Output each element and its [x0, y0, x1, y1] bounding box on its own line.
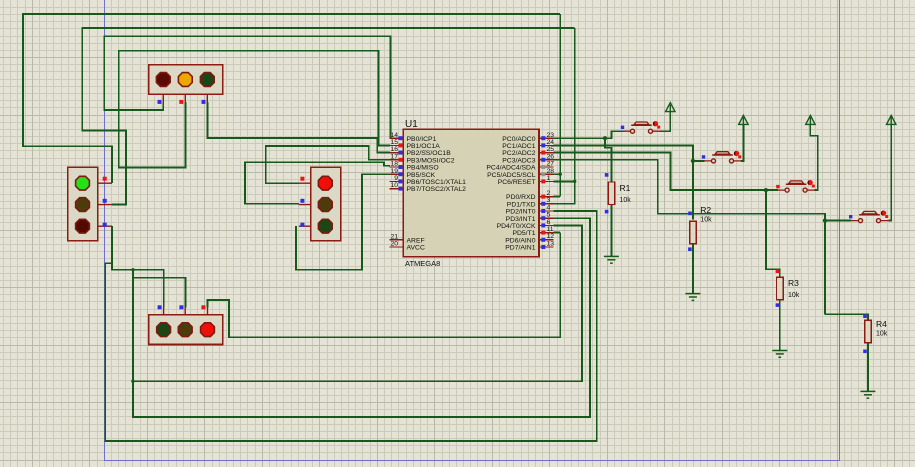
- svg-text:PD7/AIN1: PD7/AIN1: [505, 245, 535, 252]
- svg-text:27: 27: [547, 161, 555, 168]
- svg-text:14: 14: [390, 132, 398, 139]
- svg-text:10: 10: [390, 182, 398, 189]
- svg-text:1: 1: [547, 175, 551, 182]
- svg-text:6: 6: [547, 219, 551, 226]
- svg-text:17: 17: [390, 153, 398, 160]
- svg-text:PD3/INT1: PD3/INT1: [506, 216, 536, 223]
- svg-text:21: 21: [390, 233, 398, 240]
- svg-text:12: 12: [547, 233, 555, 240]
- svg-text:19: 19: [390, 168, 398, 175]
- svg-text:AREF: AREF: [407, 237, 425, 244]
- svg-text:PD4/T0/XCK: PD4/T0/XCK: [497, 223, 536, 230]
- svg-text:PB1/OC1A: PB1/OC1A: [407, 143, 441, 150]
- svg-text:AVCC: AVCC: [407, 245, 425, 252]
- svg-text:PC3/ADC3: PC3/ADC3: [502, 157, 535, 164]
- svg-text:PB4/MISO: PB4/MISO: [407, 165, 439, 172]
- svg-text:15: 15: [390, 139, 398, 146]
- svg-text:U1: U1: [405, 119, 418, 130]
- svg-text:PD1/TXD: PD1/TXD: [507, 201, 536, 208]
- svg-text:24: 24: [547, 139, 555, 146]
- svg-text:PB7/TOSC2/XTAL2: PB7/TOSC2/XTAL2: [407, 186, 467, 193]
- svg-text:18: 18: [390, 161, 398, 168]
- svg-text:PB5/SCK: PB5/SCK: [407, 172, 436, 179]
- svg-text:R4: R4: [876, 319, 887, 329]
- svg-text:2: 2: [547, 190, 551, 197]
- svg-text:R3: R3: [788, 278, 799, 288]
- svg-text:5: 5: [547, 212, 551, 219]
- svg-text:PC6/RESET: PC6/RESET: [498, 179, 536, 186]
- svg-text:PD5/T1: PD5/T1: [512, 230, 535, 237]
- svg-text:R1: R1: [620, 183, 631, 193]
- svg-text:PB6/TOSC1/XTAL1: PB6/TOSC1/XTAL1: [407, 179, 467, 186]
- svg-text:PB2/SS/OC1B: PB2/SS/OC1B: [407, 150, 452, 157]
- svg-text:9: 9: [394, 175, 398, 182]
- svg-text:PC2/ADC2: PC2/ADC2: [502, 150, 535, 157]
- svg-text:PC1/ADC1: PC1/ADC1: [502, 143, 535, 150]
- svg-text:PC5/ADC5/SCL: PC5/ADC5/SCL: [487, 172, 536, 179]
- svg-text:11: 11: [547, 226, 554, 233]
- svg-text:PC4/ADC4/SDA: PC4/ADC4/SDA: [486, 165, 536, 172]
- svg-text:PC0/ADC0: PC0/ADC0: [502, 136, 535, 143]
- svg-text:PB0/ICP1: PB0/ICP1: [407, 136, 437, 143]
- svg-text:20: 20: [390, 241, 398, 248]
- svg-text:PD2/INT0: PD2/INT0: [506, 209, 536, 216]
- svg-text:16: 16: [390, 146, 398, 153]
- svg-text:10k: 10k: [620, 197, 632, 204]
- svg-text:10k: 10k: [700, 217, 712, 224]
- svg-text:R2: R2: [700, 205, 711, 215]
- svg-text:3: 3: [547, 197, 551, 204]
- svg-text:PD0/RXD: PD0/RXD: [506, 194, 536, 201]
- svg-text:ATMEGA8: ATMEGA8: [405, 259, 440, 268]
- svg-text:26: 26: [547, 153, 555, 160]
- svg-text:25: 25: [547, 146, 555, 153]
- svg-text:PB3/MOSI/OC2: PB3/MOSI/OC2: [407, 157, 455, 164]
- svg-text:10k: 10k: [876, 331, 888, 338]
- svg-text:10k: 10k: [788, 292, 800, 299]
- svg-text:28: 28: [547, 168, 555, 175]
- svg-text:13: 13: [547, 240, 555, 247]
- svg-text:23: 23: [547, 132, 555, 139]
- svg-text:4: 4: [547, 204, 551, 211]
- svg-text:PD6/AIN0: PD6/AIN0: [505, 237, 535, 244]
